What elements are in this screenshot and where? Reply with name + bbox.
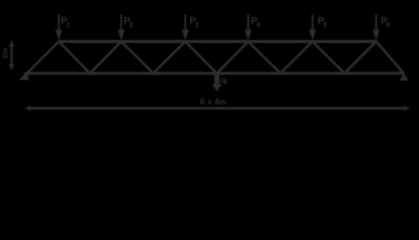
right support ground line bbox=[400, 79, 409, 81]
svg-text:2: 2 bbox=[129, 22, 133, 29]
svg-text:6 x 4m: 6 x 4m bbox=[200, 98, 226, 107]
load P2 arrow bbox=[118, 15, 125, 41]
bottom chord left arrowhead bbox=[23, 71, 28, 76]
top chord member bbox=[59, 40, 376, 43]
load P5 arrow bbox=[309, 15, 316, 41]
diagonal web members (zigzag) bbox=[27, 42, 404, 74]
svg-text:2m: 2m bbox=[1, 48, 10, 59]
displacement u4 arrow at centre bottom node bbox=[212, 73, 222, 91]
left pin support triangle bbox=[21, 73, 28, 78]
left support ground line bbox=[20, 78, 29, 80]
svg-text:4: 4 bbox=[256, 22, 260, 29]
load P4 arrow bbox=[245, 15, 252, 41]
height dimension arrow (2m) bbox=[9, 40, 14, 71]
load P3 arrow bbox=[182, 15, 189, 41]
load P6 arrow bbox=[373, 15, 380, 41]
svg-text:1: 1 bbox=[66, 22, 70, 29]
svg-text:3: 3 bbox=[195, 22, 199, 29]
svg-text:5: 5 bbox=[323, 22, 327, 29]
right pin support triangle bbox=[401, 74, 407, 79]
svg-text:6: 6 bbox=[386, 22, 390, 29]
bottom chord member (line with outward arrowheads) bbox=[26, 72, 404, 75]
load P1 arrow bbox=[55, 15, 62, 41]
bottom chord right arrowhead bbox=[399, 71, 404, 76]
span dimension line (6 x 4m) bbox=[24, 106, 410, 111]
